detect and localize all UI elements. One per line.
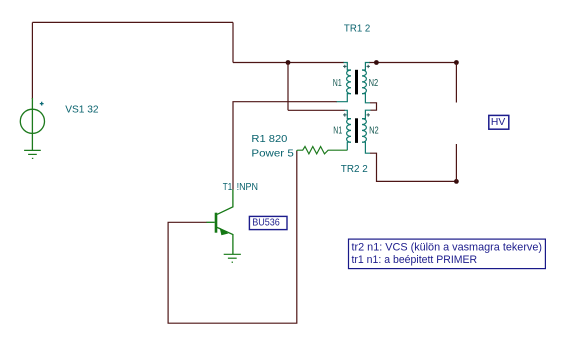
label VS1 32 (65, 104, 99, 115)
transformer TR1 core (355, 70, 358, 95)
wire right rail lower (HV gap bottom) (455, 144, 457, 181)
VS1 plus polarity mark (40, 102, 44, 106)
svg-text:TR1 2: TR1 2 (344, 23, 371, 34)
ground below T1 emitter (224, 254, 241, 262)
svg-text:VS1 32: VS1 32 (65, 104, 99, 115)
label TR1 N2 (369, 78, 379, 89)
label TR2 2 (341, 164, 368, 175)
label TR1 2 (344, 23, 371, 34)
TR1 polarity plus left (343, 65, 346, 68)
label TR2 N2 (369, 126, 379, 137)
wire TR1 N2 top to right rail (369, 62, 456, 64)
svg-text:tr2 n1: VCS (külön a vasmagra: tr2 n1: VCS (külön a vasmagra tekerve) (352, 241, 543, 253)
TR1 polarity plus right (367, 65, 370, 68)
TR2 polarity plus right (367, 113, 370, 116)
voltage source VS1 (20, 98, 44, 150)
svg-text:!NPN: !NPN (237, 182, 258, 193)
node junction at 456.4,181.4 (454, 179, 459, 184)
wire TR2 N2 bottom to right rail (370, 153, 456, 181)
transformer TR1 secondary winding N2 (362, 63, 370, 103)
transformer TR2 secondary winding N2 (362, 110, 371, 153)
annotation note box (349, 239, 546, 269)
wire to TR2 N1 top (288, 109, 345, 111)
svg-text:HV: HV (491, 117, 505, 128)
transformer TR2 core (355, 118, 358, 143)
wire base feedback loop R1 to base (168, 151, 297, 323)
transformer TR1 primary winding N1 (337, 63, 352, 102)
resistor R1 (297, 147, 348, 154)
transistor T1 emitter lead with arrow (217, 227, 233, 254)
transistor T1 base lead (207, 221, 215, 223)
wire to TR1 N1 top (233, 62, 344, 64)
part number box BU536 (249, 216, 287, 229)
svg-text:N1: N1 (333, 126, 342, 137)
wire right rail upper (HV gap top) (455, 63, 457, 103)
svg-text:R1 820: R1 820 (251, 134, 287, 145)
wire VS1 top lead (31, 22, 33, 99)
svg-text:BU536: BU536 (252, 218, 280, 229)
TR2 polarity plus left (343, 113, 346, 116)
label TR1 N1 (333, 78, 342, 89)
svg-text:tr1 n1: a beépitett PRIMER: tr1 n1: a beépitett PRIMER (352, 254, 478, 266)
svg-text:Power 5: Power 5 (251, 148, 294, 159)
svg-text:TR2 2: TR2 2 (341, 164, 368, 175)
label T1 !NPN (223, 182, 258, 193)
wire corner down to TR1 row (232, 22, 234, 62)
node junction at 288,62.5 (286, 60, 291, 65)
wire TR1 N1 bottom to collector rail (233, 102, 337, 190)
transistor T1 base bar (215, 213, 218, 233)
node junction at 376.4,62.5 (374, 60, 379, 65)
ground below VS1 (24, 150, 41, 158)
label Power 5 (251, 148, 294, 159)
label TR2 N1 (333, 126, 342, 137)
label R1 820 (251, 134, 287, 145)
svg-text:N1: N1 (333, 78, 342, 89)
svg-text:T1: T1 (223, 182, 233, 193)
HV output box (489, 115, 509, 129)
wire top from VS1 to corner (32, 21, 233, 23)
node junction at 456.4,62.5 (454, 60, 459, 65)
transistor T1 collector lead (217, 190, 233, 215)
wire from node down (287, 63, 289, 111)
svg-text:N2: N2 (369, 78, 379, 89)
svg-text:N2: N2 (369, 126, 379, 137)
transformer TR2 primary winding N1 (345, 110, 352, 150)
wire TR1 N2 bottom loop to TR2 N2 top (370, 103, 377, 110)
